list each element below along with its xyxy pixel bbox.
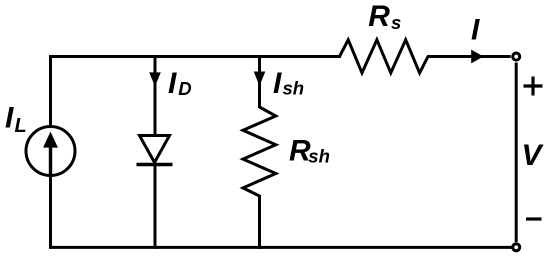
svg-text:I: I: [168, 67, 177, 100]
wire left rail upper: [49, 55, 52, 126]
resistor Rs zigzag: [340, 40, 429, 73]
wire bottom rail: [49, 246, 512, 249]
arrow I_D head: [149, 72, 161, 86]
resistor Rsh zigzag: [243, 107, 276, 196]
wire diode branch upper: [154, 55, 157, 136]
wire Rsh branch upper: [258, 55, 261, 108]
diode D1 triangle: [140, 136, 170, 163]
svg-text:sh: sh: [283, 77, 305, 98]
arrow I head: [471, 50, 483, 64]
wire left rail lower: [49, 176, 52, 249]
svg-text:sh: sh: [308, 145, 330, 166]
svg-text:I: I: [471, 14, 480, 47]
label plus sign: [524, 77, 543, 96]
svg-text:L: L: [15, 115, 27, 137]
svg-text:D: D: [178, 78, 191, 99]
current source I_L circle: [26, 127, 75, 176]
wire top rail: [49, 55, 341, 58]
diode D1 cathode bar: [137, 163, 173, 167]
current source arrow shaft: [49, 144, 52, 175]
svg-text:s: s: [391, 12, 401, 33]
wire Rs to positive terminal: [427, 55, 511, 58]
wire Rsh branch lower: [258, 195, 261, 249]
svg-text:V: V: [522, 139, 545, 172]
svg-text:I: I: [273, 67, 282, 100]
arrow I_sh head: [254, 72, 266, 87]
terminal positive: [513, 53, 520, 60]
wire right rail: [515, 63, 518, 243]
wire diode branch lower: [154, 165, 157, 249]
terminal negative: [513, 244, 520, 251]
current source arrowhead: [43, 132, 58, 148]
svg-text:R: R: [368, 0, 390, 33]
label minus sign: [526, 217, 542, 220]
svg-text:I: I: [5, 102, 14, 135]
